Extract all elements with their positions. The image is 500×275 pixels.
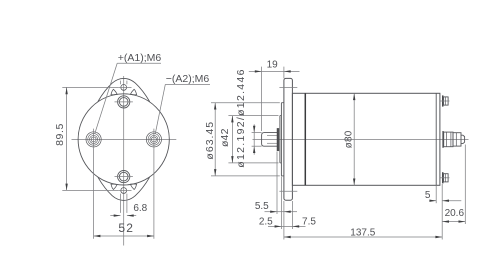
svg-text:ø63.45: ø63.45 (204, 121, 216, 160)
svg-text:2.5: 2.5 (259, 217, 273, 228)
svg-text:−(A2);M6: −(A2);M6 (166, 73, 210, 85)
svg-text:7.5: 7.5 (302, 216, 316, 227)
svg-text:+(A1);M6: +(A1);M6 (118, 52, 162, 64)
svg-text:6.8: 6.8 (133, 203, 147, 214)
svg-text:5.5: 5.5 (255, 201, 269, 212)
svg-text:ø42: ø42 (219, 128, 231, 147)
svg-text:52: 52 (118, 221, 134, 235)
svg-text:5: 5 (425, 190, 431, 201)
svg-text:ø12.192/ø12.446: ø12.192/ø12.446 (235, 68, 247, 167)
svg-text:19: 19 (267, 59, 279, 70)
svg-text:20.6: 20.6 (445, 208, 465, 219)
svg-text:137.5: 137.5 (350, 227, 375, 238)
svg-text:ø80: ø80 (344, 130, 355, 148)
svg-text:89.5: 89.5 (54, 123, 66, 146)
